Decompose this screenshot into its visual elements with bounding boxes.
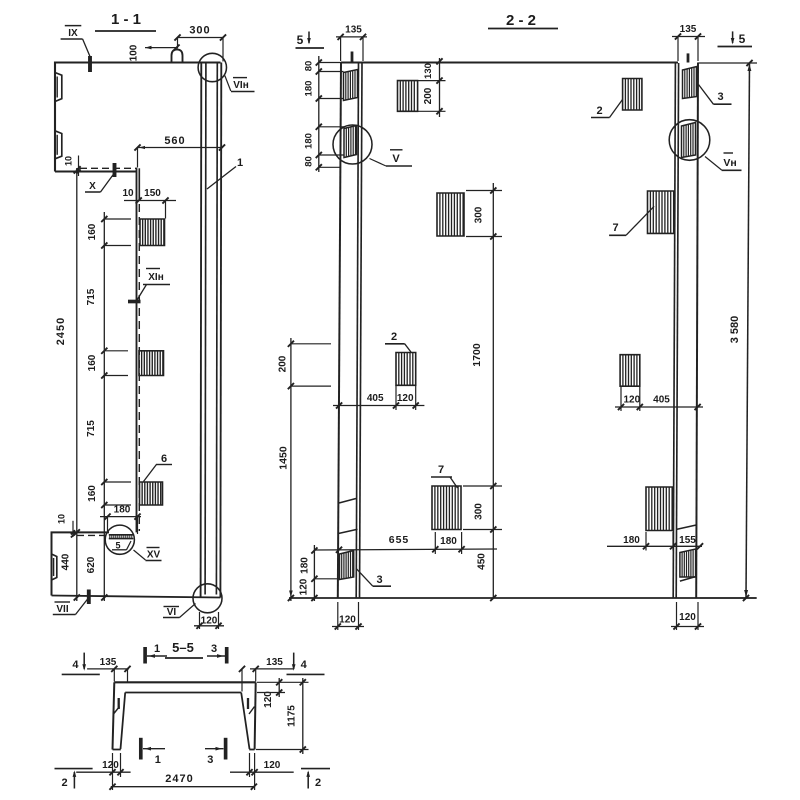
svg-text:150: 150 <box>144 188 161 199</box>
hidden inner face line (top flange) <box>80 167 137 169</box>
channel outline (5-5) <box>114 681 255 683</box>
embedded plate hatch 3 (1-1) <box>140 482 163 505</box>
svg-text:2: 2 <box>61 777 67 789</box>
dimension 120 (web bottom) <box>199 612 201 629</box>
label XV <box>147 547 160 549</box>
bottom flange outline (1-1) <box>52 532 110 595</box>
dimension 655 / 180 (center bottom) <box>314 549 497 550</box>
web wall lines (1-1) <box>200 63 203 597</box>
svg-text:655: 655 <box>389 534 410 546</box>
svg-text:VII: VII <box>56 604 68 615</box>
svg-text:155: 155 <box>679 535 696 546</box>
panel plate hatch K (mid right) <box>620 355 640 387</box>
cut mark 3 (top) <box>225 647 229 664</box>
right rib outline (2-2) <box>696 63 698 599</box>
rib dimension 80/180 (left top) <box>318 56 320 172</box>
svg-text:1: 1 <box>237 157 243 169</box>
panel plate hatch H (center upper, 300) <box>437 193 464 236</box>
dimension 120 (below right rib) <box>676 602 678 630</box>
svg-text:5–5: 5–5 <box>172 640 194 655</box>
svg-text:300: 300 <box>474 503 485 520</box>
dimension 135 (5-5 right) <box>250 668 294 670</box>
hidden inner face line (bottom flange) <box>77 534 108 536</box>
svg-text:715: 715 <box>86 420 97 437</box>
svg-text:180: 180 <box>304 133 315 149</box>
dimension 100 <box>145 47 177 49</box>
keyway notch lower (flange left edge) <box>55 131 62 159</box>
panel plate hatch J (mid left, label 2) <box>396 353 416 386</box>
svg-text:2: 2 <box>315 777 321 789</box>
svg-text:5: 5 <box>739 32 746 46</box>
svg-text:3: 3 <box>376 574 382 586</box>
rib plate hatch F (in circle Vh) <box>682 123 696 158</box>
svg-text:135: 135 <box>680 24 697 35</box>
svg-text:XIн: XIн <box>148 272 164 283</box>
svg-text:Vн: Vн <box>723 157 736 169</box>
svg-text:180: 180 <box>114 505 131 516</box>
panel plate hatch I (center lower, label 7) <box>432 486 461 530</box>
svg-text:IX: IX <box>68 28 78 39</box>
svg-text:715: 715 <box>86 288 97 305</box>
dimension 120 (below left rib) <box>337 602 339 630</box>
svg-text:4: 4 <box>72 659 79 671</box>
rib plate hatch N (right rib bottom) <box>680 549 696 577</box>
center dimension line 300/1700/300/450 <box>492 183 494 598</box>
hidden wall line (dashed) <box>138 204 140 531</box>
detail circle V <box>333 125 372 164</box>
dimension 405 120 (mid left) <box>333 405 424 407</box>
svg-text:1450: 1450 <box>278 446 290 470</box>
svg-text:135: 135 <box>266 657 283 668</box>
svg-text:3: 3 <box>717 91 723 103</box>
svg-text:560: 560 <box>164 135 185 147</box>
svg-text:160: 160 <box>87 223 98 240</box>
svg-text:5: 5 <box>115 541 120 551</box>
panel top edge (2-2) <box>341 61 678 63</box>
dimension 180 155 (right bottom) <box>607 545 702 547</box>
cut mark 1 (bottom) <box>139 738 143 760</box>
svg-text:7: 7 <box>438 464 444 476</box>
keyway notch upper (flange left edge) <box>55 73 62 102</box>
svg-text:120: 120 <box>339 615 356 626</box>
svg-text:160: 160 <box>87 354 98 371</box>
svg-text:2: 2 <box>391 331 397 343</box>
svg-text:440: 440 <box>61 553 72 570</box>
panel plate hatch L (bottom right) <box>646 487 673 531</box>
left rib taper diagonals <box>339 499 356 504</box>
leg marks (5-5) <box>118 698 120 709</box>
embedded plate hatch 2 (1-1) <box>139 351 164 376</box>
cut mark 1 (top) <box>143 647 147 664</box>
thin slab 5mm strip (detail XV) <box>109 534 134 536</box>
overall dimension 3580 <box>746 63 750 598</box>
svg-text:10: 10 <box>64 156 74 166</box>
svg-text:XV: XV <box>147 550 161 561</box>
svg-text:4: 4 <box>301 659 308 671</box>
svg-text:VI: VI <box>167 607 177 618</box>
svg-text:120: 120 <box>201 616 218 627</box>
lifting loop <box>172 50 183 63</box>
label 1 with leader <box>207 167 236 190</box>
segment dimension line 160/715/160/715/160/620 <box>103 212 105 601</box>
embedded plate hatch 1 (1-1) <box>140 219 165 246</box>
dimension 560 <box>138 147 223 149</box>
detail circle XV <box>105 525 134 554</box>
svg-text:7: 7 <box>612 222 618 234</box>
svg-text:120: 120 <box>299 578 310 595</box>
svg-text:300: 300 <box>474 206 485 223</box>
svg-text:405: 405 <box>653 395 670 406</box>
dimension 180 (bottom) <box>100 516 141 518</box>
section mark IX <box>88 56 92 72</box>
dimension 120 (bottom right leg) <box>249 753 251 777</box>
panel plate hatch G (right, label 7) <box>648 191 675 233</box>
left dimension line 200/1450 <box>290 338 292 601</box>
svg-text:200: 200 <box>278 355 289 372</box>
left wall line (1-1) <box>136 168 138 532</box>
svg-text:405: 405 <box>367 393 384 404</box>
svg-text:2470: 2470 <box>165 773 193 785</box>
svg-text:2 - 2: 2 - 2 <box>506 12 536 29</box>
top flange outline (1-1) <box>55 63 221 172</box>
panel plate hatch C (top, 130/200) <box>398 81 418 112</box>
svg-text:120: 120 <box>679 612 696 623</box>
svg-text:3: 3 <box>211 643 217 655</box>
rib plate hatch M (left rib bottom, label 3) <box>340 551 354 580</box>
svg-text:1 - 1: 1 - 1 <box>111 11 141 28</box>
svg-text:180: 180 <box>304 81 315 97</box>
detail circle VIh (top) <box>198 53 226 81</box>
svg-text:1175: 1175 <box>287 705 298 727</box>
svg-text:80: 80 <box>304 156 315 167</box>
svg-text:180: 180 <box>440 536 457 547</box>
svg-text:135: 135 <box>345 25 362 36</box>
svg-text:100: 100 <box>129 44 140 61</box>
detail circle VI (web bottom) <box>193 584 222 613</box>
detail circle Vh <box>669 120 710 161</box>
right rib taper diagonal <box>677 525 697 530</box>
svg-text:620: 620 <box>86 556 97 573</box>
panel plate hatch D (top right, label 2) <box>623 79 642 111</box>
dimension 120 (bottom left leg) <box>112 753 114 790</box>
svg-text:120: 120 <box>264 760 281 771</box>
section mark X <box>113 163 117 177</box>
svg-text:1: 1 <box>154 643 160 655</box>
section mark XIh <box>128 300 141 304</box>
svg-text:3 580: 3 580 <box>729 316 741 344</box>
rib plate hatch A (left rib top) <box>344 70 358 101</box>
label VIh <box>233 77 247 79</box>
cut mark 3 (bottom) <box>224 738 228 760</box>
svg-text:10: 10 <box>57 514 67 524</box>
label Vh <box>724 152 734 154</box>
view mark 5 (top right) <box>732 31 734 43</box>
svg-text:300: 300 <box>189 25 210 37</box>
svg-text:X: X <box>89 181 96 192</box>
panel bottom edge (2-2) <box>289 597 756 599</box>
svg-text:180: 180 <box>623 535 640 546</box>
svg-text:120: 120 <box>263 691 274 708</box>
dimension 2470 <box>111 786 254 788</box>
label VI <box>164 606 180 608</box>
keyway notch (bottom flange left edge) <box>52 554 57 580</box>
dimension 120 405 (mid right) <box>615 406 703 408</box>
svg-text:1700: 1700 <box>471 343 483 367</box>
rib plate hatch E (right rib top, label 3) <box>683 67 698 99</box>
svg-text:2450: 2450 <box>55 317 67 345</box>
svg-text:3: 3 <box>207 754 213 766</box>
svg-text:5: 5 <box>297 33 304 47</box>
svg-text:160: 160 <box>87 485 98 502</box>
dimension 135 (5-5 left) <box>87 668 129 670</box>
svg-text:120: 120 <box>397 393 414 404</box>
svg-text:180: 180 <box>300 557 311 574</box>
view mark 2 (left) <box>55 768 93 770</box>
extension lines to plates (1-1) <box>105 218 131 220</box>
section mark VII <box>87 590 91 605</box>
left bottom dimension 180/120 <box>313 545 315 601</box>
svg-text:120: 120 <box>102 760 119 771</box>
svg-text:200: 200 <box>423 87 434 104</box>
svg-text:V: V <box>392 153 400 165</box>
svg-text:2: 2 <box>596 105 602 117</box>
svg-text:450: 450 <box>477 553 488 570</box>
svg-text:6: 6 <box>161 453 167 465</box>
dimension 130/200 (plate C) <box>439 58 441 117</box>
svg-text:130: 130 <box>423 63 434 79</box>
rib plate hatch B (in circle V) <box>344 126 357 158</box>
svg-text:135: 135 <box>100 657 117 668</box>
left rib outline (2-2) <box>338 63 341 599</box>
svg-text:1: 1 <box>155 754 161 766</box>
svg-text:VIн: VIн <box>233 80 249 91</box>
svg-text:80: 80 <box>304 61 315 72</box>
svg-text:120: 120 <box>623 395 640 406</box>
overall dimension line 2450/440 <box>76 168 78 601</box>
dimension 300 <box>178 37 224 39</box>
svg-text:10: 10 <box>122 188 134 199</box>
label V <box>390 149 403 151</box>
dimension 10 150 <box>124 200 176 202</box>
view mark 2 (right) <box>301 768 330 770</box>
